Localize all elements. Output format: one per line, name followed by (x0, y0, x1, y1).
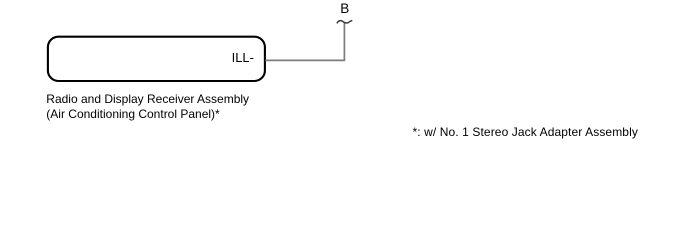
pin label ILL- (154, 51, 254, 64)
wire: horizontal segment from ILL- pin to riser (265, 59, 345, 61)
node label B (340, 2, 349, 16)
component box U1: Radio and Display Receiver Assembly (48, 37, 265, 81)
footnote: *: w/ No. 1 Stereo Jack Adapter Assembly (413, 125, 638, 140)
connector B continuation (wavy) symbol (337, 21, 352, 23)
caption: component name (46, 92, 306, 122)
wire: vertical riser up to connector B (343, 23, 345, 61)
